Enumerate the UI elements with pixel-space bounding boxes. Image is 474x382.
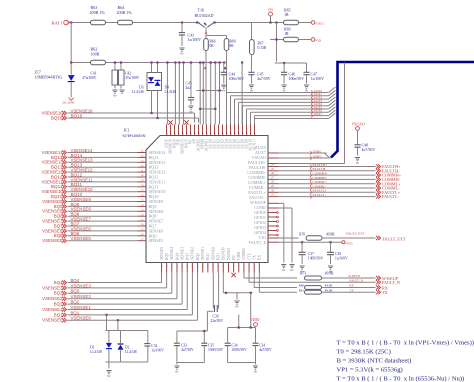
svg-text:DGND1: DGND1 bbox=[227, 247, 231, 260]
svg-text:VP1: VP1 bbox=[267, 8, 273, 12]
svg-text:4u7/50V: 4u7/50V bbox=[181, 348, 194, 352]
svg-text:SENSE3: SENSE3 bbox=[180, 247, 184, 260]
svg-text:W-KEUP: W-KEUP bbox=[348, 274, 360, 278]
svg-text:T = T0 x B ( 1 / ( B - T0 x l: T = T0 x B ( 1 / ( B - T0 x ln (65536-Nu… bbox=[337, 376, 465, 382]
svg-text:1R: 1R bbox=[284, 32, 289, 36]
svg-text:VSUAO: VSUAO bbox=[352, 123, 365, 127]
svg-text:0v: 0v bbox=[107, 374, 110, 378]
svg-text:TX: TX bbox=[253, 255, 257, 260]
svg-text:LL4148: LL4148 bbox=[165, 90, 177, 94]
svg-text:0v: 0v bbox=[356, 161, 359, 165]
svg-text:SENSE5: SENSE5 bbox=[149, 238, 164, 243]
svg-text:C43: C43 bbox=[188, 34, 195, 38]
svg-text:AUX7: AUX7 bbox=[314, 112, 323, 116]
svg-text:IC1: IC1 bbox=[124, 128, 130, 133]
svg-text:BQ2: BQ2 bbox=[196, 253, 200, 260]
svg-text:0v: 0v bbox=[181, 51, 184, 55]
svg-text:0v: 0v bbox=[114, 93, 117, 97]
svg-text:C47: C47 bbox=[311, 73, 318, 77]
svg-text:T = T0 x B ( 1 / ( B - T0 x l: T = T0 x B ( 1 / ( B - T0 x ln (VP1-Vmes… bbox=[337, 340, 474, 347]
svg-text:R68: R68 bbox=[230, 40, 236, 44]
svg-text:D1_BAT: D1_BAT bbox=[63, 101, 76, 105]
svg-text:VSENSE5: VSENSE5 bbox=[71, 236, 92, 241]
svg-text:0v: 0v bbox=[291, 268, 294, 272]
svg-text:VSENSE0: VSENSE0 bbox=[42, 318, 63, 323]
svg-text:VIO: VIO bbox=[315, 39, 322, 43]
svg-text:0v: 0v bbox=[283, 88, 286, 92]
svg-text:R69: R69 bbox=[284, 28, 291, 32]
svg-text:R67: R67 bbox=[258, 42, 264, 46]
svg-text:TX: TX bbox=[382, 290, 388, 295]
svg-text:R66: R66 bbox=[210, 40, 216, 44]
svg-text:SENSE4: SENSE4 bbox=[170, 247, 174, 260]
svg-text:VSENSE1: VSENSE1 bbox=[71, 305, 92, 310]
svg-text:BQ2: BQ2 bbox=[71, 300, 80, 305]
svg-text:VD1G: VD1G bbox=[315, 22, 325, 26]
svg-text:4u7/50V: 4u7/50V bbox=[257, 77, 271, 81]
svg-text:VDIO: VDIO bbox=[250, 318, 260, 322]
svg-text:R70: R70 bbox=[299, 233, 305, 237]
svg-text:R65: R65 bbox=[284, 9, 291, 13]
svg-text:FAULT_N: FAULT_N bbox=[382, 280, 400, 285]
svg-text:B = 3930K (NTC datasheet): B = 3930K (NTC datasheet) bbox=[337, 358, 412, 365]
svg-text:D2: D2 bbox=[125, 346, 130, 350]
svg-text:C34: C34 bbox=[259, 344, 265, 348]
svg-text:0v: 0v bbox=[222, 88, 225, 92]
svg-text:49.9R: 49.9R bbox=[325, 289, 334, 293]
svg-text:CTL: CTL bbox=[247, 252, 251, 260]
svg-text:C45: C45 bbox=[257, 73, 264, 77]
svg-text:47n/100V: 47n/100V bbox=[125, 76, 140, 80]
svg-text:C42: C42 bbox=[125, 72, 131, 76]
svg-text:C46: C46 bbox=[289, 73, 296, 77]
svg-text:0v: 0v bbox=[305, 88, 308, 92]
svg-text:BQ1: BQ1 bbox=[71, 310, 80, 315]
svg-text:SENSE5: SENSE5 bbox=[160, 247, 164, 260]
svg-text:1u/100V: 1u/100V bbox=[311, 77, 325, 81]
svg-text:R81: R81 bbox=[299, 289, 305, 293]
svg-text:BUJ302AD: BUJ302AD bbox=[195, 13, 214, 18]
svg-text:D3: D3 bbox=[139, 86, 144, 90]
svg-text:BQ1: BQ1 bbox=[206, 253, 210, 260]
svg-text:C36: C36 bbox=[213, 315, 219, 319]
svg-text:100R: 100R bbox=[91, 52, 100, 57]
svg-text:0v: 0v bbox=[254, 369, 257, 373]
svg-text:22n/50V: 22n/50V bbox=[211, 319, 224, 323]
svg-text:BQ3: BQ3 bbox=[71, 289, 80, 294]
svg-text:1u/100V: 1u/100V bbox=[151, 349, 164, 353]
svg-text:100n/50V: 100n/50V bbox=[229, 77, 245, 81]
svg-text:C37: C37 bbox=[308, 252, 314, 256]
svg-text:C44: C44 bbox=[229, 73, 236, 77]
svg-text:BQ4: BQ4 bbox=[175, 253, 179, 260]
svg-text:TEMP1: TEMP1 bbox=[313, 150, 322, 153]
svg-text:RX: RX bbox=[258, 255, 262, 260]
svg-text:VSENSE3: VSENSE3 bbox=[71, 283, 92, 288]
svg-text:BQ16: BQ16 bbox=[51, 115, 63, 120]
svg-text:4u7/50V: 4u7/50V bbox=[362, 148, 376, 152]
svg-text:C33: C33 bbox=[181, 344, 187, 348]
svg-text:TX: TX bbox=[349, 288, 354, 292]
svg-text:947BPL455EVM: 947BPL455EVM bbox=[123, 134, 146, 138]
svg-text:VSENSE2: VSENSE2 bbox=[42, 296, 63, 301]
svg-text:1R: 1R bbox=[284, 13, 289, 17]
svg-text:Z17: Z17 bbox=[35, 71, 41, 75]
svg-text:R73: R73 bbox=[300, 272, 306, 276]
svg-text:TEMP2: TEMP2 bbox=[313, 155, 322, 158]
svg-text:LL4148: LL4148 bbox=[132, 90, 144, 94]
svg-text:CHM: CHM bbox=[237, 251, 241, 260]
svg-text:FAULT_EXT: FAULT_EXT bbox=[346, 232, 366, 236]
svg-text:LL4148: LL4148 bbox=[90, 350, 102, 354]
svg-text:VP1 = 5.3V(k = 65536g): VP1 = 5.3V(k = 65536g) bbox=[337, 367, 403, 374]
svg-text:BQ5: BQ5 bbox=[165, 253, 169, 260]
svg-text:SENSE0: SENSE0 bbox=[211, 247, 215, 260]
svg-text:C41: C41 bbox=[91, 72, 97, 76]
svg-text:49.9R: 49.9R bbox=[325, 284, 334, 288]
svg-text:31: 31 bbox=[271, 193, 275, 197]
svg-text:BQ16: BQ16 bbox=[71, 113, 83, 118]
svg-text:BQ3: BQ3 bbox=[186, 253, 190, 260]
svg-text:200R 1%: 200R 1% bbox=[90, 10, 106, 15]
svg-text:BAT1: BAT1 bbox=[52, 21, 64, 26]
svg-text:C38: C38 bbox=[335, 252, 341, 256]
svg-text:VSENSE1: VSENSE1 bbox=[42, 307, 63, 312]
svg-text:FAULT_N: FAULT_N bbox=[349, 278, 363, 282]
svg-text:FAULTL-: FAULTL- bbox=[382, 194, 400, 199]
svg-text:1SMB5944BT3G: 1SMB5944BT3G bbox=[35, 76, 63, 80]
svg-text:0R: 0R bbox=[230, 44, 235, 48]
svg-text:LL4148: LL4148 bbox=[125, 350, 137, 354]
svg-text:COMM: COMM bbox=[242, 248, 246, 260]
svg-text:FAULT_E: FAULT_E bbox=[249, 240, 267, 245]
svg-text:D4: D4 bbox=[165, 86, 170, 90]
svg-text:200R 1%: 200R 1% bbox=[117, 10, 133, 15]
svg-text:49.9R: 49.9R bbox=[326, 233, 335, 237]
svg-text:0v: 0v bbox=[250, 88, 253, 92]
svg-text:RX: RX bbox=[349, 284, 354, 288]
svg-text:100n/50V: 100n/50V bbox=[289, 77, 305, 81]
svg-text:100N/50V: 100N/50V bbox=[232, 348, 248, 352]
svg-text:VSENSE0: VSENSE0 bbox=[71, 316, 92, 321]
svg-text:VSENSE2: VSENSE2 bbox=[71, 294, 92, 299]
svg-text:1u/100V: 1u/100V bbox=[188, 38, 202, 42]
svg-text:0v: 0v bbox=[175, 369, 178, 373]
svg-text:0v: 0v bbox=[282, 268, 285, 272]
svg-text:R80: R80 bbox=[299, 284, 305, 288]
svg-text:C32: C32 bbox=[151, 344, 157, 348]
svg-text:100N/50V: 100N/50V bbox=[308, 257, 324, 261]
svg-text:0R: 0R bbox=[210, 44, 215, 48]
svg-text:VSENSE3: VSENSE3 bbox=[42, 285, 63, 290]
svg-text:VSENSE5: VSENSE5 bbox=[42, 238, 63, 243]
svg-text:49.9R: 49.9R bbox=[325, 272, 334, 276]
svg-text:4u7/50V: 4u7/50V bbox=[259, 348, 272, 352]
svg-text:FAULT_EXT: FAULT_EXT bbox=[383, 237, 406, 242]
svg-text:C45: C45 bbox=[186, 82, 192, 86]
svg-text:2n2: 2n2 bbox=[186, 86, 192, 90]
svg-text:SENSE2: SENSE2 bbox=[191, 247, 195, 260]
svg-text:C35: C35 bbox=[208, 344, 214, 348]
svg-text:0v: 0v bbox=[236, 304, 239, 308]
svg-text:47n/100V: 47n/100V bbox=[82, 76, 97, 80]
svg-text:DGND0: DGND0 bbox=[222, 247, 226, 260]
svg-text:T16: T16 bbox=[198, 8, 205, 13]
svg-text:100N/50V: 100N/50V bbox=[208, 348, 224, 352]
svg-text:NC: NC bbox=[232, 254, 236, 260]
svg-text:RD1: RD1 bbox=[216, 253, 220, 260]
svg-text:BQ4: BQ4 bbox=[71, 278, 80, 283]
svg-text:C48: C48 bbox=[362, 144, 369, 148]
svg-text:D1: D1 bbox=[90, 346, 95, 350]
svg-text:FAULTL-: FAULTL- bbox=[313, 193, 327, 197]
svg-text:T0 = 298.15K (25C): T0 = 298.15K (25C) bbox=[337, 349, 391, 356]
svg-text:C34: C34 bbox=[232, 344, 238, 348]
svg-text:SENSE1: SENSE1 bbox=[201, 247, 205, 260]
svg-text:0.33R: 0.33R bbox=[258, 46, 267, 50]
svg-text:VPD: VPD bbox=[346, 241, 353, 245]
svg-text:1u/100V: 1u/100V bbox=[335, 257, 348, 261]
